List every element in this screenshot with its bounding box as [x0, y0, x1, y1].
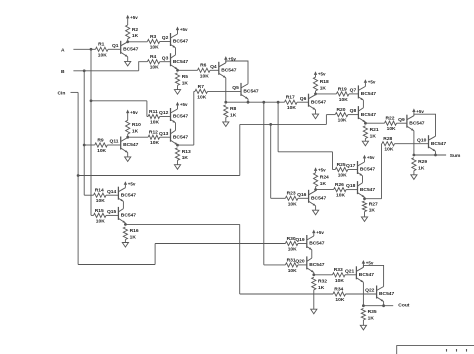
svg-text:10K: 10K — [288, 201, 297, 207]
svg-text:BC547: BC547 — [173, 59, 189, 65]
svg-text:+5v: +5v — [367, 155, 375, 160]
svg-text:+5v: +5v — [318, 168, 326, 173]
svg-text:Q22: Q22 — [365, 288, 375, 294]
svg-text:BC547: BC547 — [359, 272, 375, 278]
wire AND output to R34 — [240, 293, 333, 295]
resistor R7 10K — [195, 89, 208, 93]
svg-text:+5v: +5v — [180, 102, 188, 107]
wire Cin riser to R20 — [325, 115, 327, 125]
node Q9 emitter Sum rail — [413, 154, 416, 157]
svg-text:R1: R1 — [98, 42, 105, 48]
+5v supply — [176, 27, 179, 31]
wire Q20 emitter lead — [313, 272, 315, 274]
svg-text:Cin: Cin — [58, 90, 66, 96]
svg-text:1K: 1K — [369, 208, 376, 214]
node Q20 emitter — [312, 273, 315, 276]
ground — [225, 117, 227, 122]
transistor Q10 BC547 — [428, 135, 430, 148]
resistor R24 1K — [314, 173, 318, 187]
transistor Q13 BC547 — [170, 129, 172, 142]
svg-text:Q5: Q5 — [232, 85, 239, 91]
svg-text:10K: 10K — [384, 147, 393, 153]
resistor R19 10K — [336, 92, 349, 96]
svg-text:Q10: Q10 — [417, 137, 427, 143]
wire Cin upper feed — [240, 123, 327, 125]
wire Sum rail — [414, 154, 446, 156]
svg-text:10K: 10K — [150, 140, 159, 146]
svg-text:R5: R5 — [182, 74, 189, 80]
svg-text:R23: R23 — [287, 191, 296, 197]
svg-text:1K: 1K — [132, 33, 139, 39]
svg-text:10K: 10K — [338, 118, 347, 124]
svg-text:BC547: BC547 — [361, 112, 377, 118]
svg-text:1K: 1K — [132, 128, 139, 134]
wire Q19 emitter to Q20 collector — [311, 250, 313, 258]
svg-text:10K: 10K — [197, 94, 206, 100]
resistor R12 10K — [148, 135, 160, 139]
resistor R34 10K — [333, 292, 346, 296]
wire Cin bus vertical — [77, 92, 79, 264]
svg-text:A: A — [61, 47, 65, 53]
resistor R2 1K — [126, 25, 130, 39]
+5v supply — [364, 79, 367, 83]
svg-text:R15: R15 — [95, 208, 104, 214]
resistor R29 1K — [412, 158, 416, 171]
svg-text:R33: R33 — [334, 267, 343, 273]
transistor Q9 BC547 — [406, 115, 408, 128]
svg-text:R6: R6 — [200, 63, 207, 69]
wire A tap down to R11 — [146, 101, 148, 117]
svg-text:R11: R11 — [149, 109, 158, 115]
svg-text:R26: R26 — [335, 182, 344, 188]
svg-text:1K: 1K — [230, 112, 237, 118]
node A tap — [90, 99, 93, 102]
wire B input — [73, 70, 138, 72]
ground — [413, 171, 415, 175]
wire R12 to Q13 base — [160, 136, 171, 138]
node Q11 collector — [126, 136, 129, 139]
wire Q15 emitter lead — [124, 223, 126, 225]
node Q10 emitter — [434, 154, 437, 157]
wire R26 to Q18 base — [346, 189, 357, 191]
node B junction — [83, 69, 86, 72]
+5v supply — [314, 167, 317, 171]
wire down to R25 — [332, 152, 334, 170]
svg-text:BC547: BC547 — [123, 47, 139, 53]
svg-text:BC547: BC547 — [221, 68, 237, 74]
svg-text:BC547: BC547 — [243, 89, 259, 95]
svg-text:Q2: Q2 — [162, 35, 169, 41]
svg-text:BC547: BC547 — [173, 134, 189, 140]
+5v supply — [412, 108, 415, 112]
resistor R22 10K — [385, 121, 397, 125]
wire B bus vertical — [83, 71, 85, 195]
transistor Q16 BC547 — [308, 190, 310, 203]
svg-text:10K: 10K — [339, 97, 348, 103]
svg-text:Q9: Q9 — [398, 117, 405, 123]
wire riser to R20 — [326, 114, 335, 116]
ground — [315, 206, 317, 210]
+5v supply — [126, 110, 129, 114]
+5v supply — [126, 15, 129, 19]
svg-text:10K: 10K — [338, 173, 347, 179]
svg-text:+5v: +5v — [318, 72, 326, 77]
wire R3 to Q2 base — [160, 41, 171, 43]
svg-text:1K: 1K — [320, 85, 327, 91]
node Q16 collector — [314, 188, 317, 191]
node Q3 emitter — [176, 69, 179, 72]
wire R30 to Q19 base — [298, 243, 307, 245]
wire Q7 emitter to Q8 collector — [362, 100, 364, 108]
svg-text:R24: R24 — [320, 175, 329, 181]
svg-text:R16: R16 — [130, 228, 139, 234]
transistor Q22 BC547 — [376, 286, 378, 299]
wire Q4 emitter down — [225, 78, 227, 102]
wire Q1 collector to R3 — [128, 41, 148, 43]
wire R11 to Q12 base — [160, 116, 171, 118]
svg-text:R8: R8 — [230, 106, 237, 112]
title block border — [397, 346, 474, 354]
svg-text:BC547: BC547 — [121, 192, 137, 198]
+5v supply — [362, 260, 365, 264]
wire R10 to node — [127, 134, 129, 137]
wire AND output down — [239, 224, 241, 294]
svg-text:BC547: BC547 — [379, 291, 395, 297]
wire Q12 emitter to Q13 collector — [175, 123, 177, 131]
resistor R18 1K — [313, 77, 317, 91]
wire A bus vertical — [90, 49, 92, 215]
resistor R1 10K — [96, 47, 109, 51]
wire riser to R7 — [194, 90, 195, 92]
wire R14 to Q14 base — [106, 194, 118, 196]
wire R20 to Q8 base — [348, 114, 359, 116]
transistor Q19 BC547 — [306, 235, 308, 248]
transistor Q4 BC547 — [218, 62, 220, 75]
wire Q22 emitter down — [383, 302, 385, 306]
wire B to R4 — [139, 62, 148, 71]
svg-text:R19: R19 — [338, 86, 347, 92]
resistor R17 10K — [285, 100, 298, 104]
svg-text:Q16: Q16 — [297, 192, 307, 198]
node Q6 collector — [314, 93, 317, 96]
svg-text:BC547: BC547 — [360, 187, 376, 193]
wire R23 to Q16 base — [298, 197, 309, 199]
wire Q2 emitter to Q3 collector — [175, 48, 177, 55]
svg-text:R13: R13 — [182, 149, 191, 155]
svg-text:+5v: +5v — [180, 27, 188, 32]
ground — [124, 240, 126, 243]
wire Cin long feed — [78, 175, 240, 177]
transistor Q2 BC547 — [170, 33, 172, 46]
transistor Q5 BC547 — [240, 83, 242, 96]
wire +5v to Q22 collector — [363, 265, 383, 286]
svg-text:+5v: +5v — [130, 110, 138, 115]
node Q15 emitter — [124, 223, 127, 226]
svg-text:1K: 1K — [318, 285, 325, 291]
svg-text:Q11: Q11 — [110, 139, 119, 145]
transistor Q14 BC547 — [117, 187, 119, 200]
svg-text:10K: 10K — [287, 105, 296, 111]
svg-text:R34: R34 — [334, 286, 343, 292]
wire Q18 node to riser — [365, 198, 382, 200]
svg-text:BC547: BC547 — [360, 167, 376, 173]
wire R7 to Q5 base — [208, 90, 242, 92]
svg-text:R2: R2 — [132, 27, 139, 33]
wire tap1 to R31 — [264, 264, 286, 266]
node Q21 emitter Cout rail — [362, 304, 365, 307]
svg-text:BC547: BC547 — [173, 114, 189, 120]
svg-text:10K: 10K — [150, 45, 159, 51]
ground — [313, 290, 315, 309]
resistor R13 1K — [175, 148, 179, 161]
svg-text:+5v: +5v — [368, 80, 376, 85]
wire A tap across — [91, 100, 147, 102]
svg-text:1K: 1K — [368, 315, 375, 321]
node Q4 emitter rail — [224, 101, 227, 104]
wire R4 to Q3 base — [160, 61, 171, 63]
resistor R23 10K — [285, 196, 298, 200]
wire A bus to R15 — [91, 214, 94, 216]
wire Q21 emitter down — [362, 282, 364, 305]
wire R24 to node — [315, 187, 317, 190]
svg-text:Q1: Q1 — [112, 43, 119, 49]
svg-text:Q6: Q6 — [300, 96, 307, 102]
svg-text:10K: 10K — [288, 247, 297, 253]
resistor R14 10K — [94, 193, 107, 197]
svg-text:R29: R29 — [418, 159, 427, 165]
svg-text:1K: 1K — [130, 234, 137, 240]
wire Cin bottom riser — [154, 244, 156, 265]
resistor R30 10K — [285, 241, 298, 245]
wire Cin input — [71, 91, 79, 93]
wire A input — [73, 48, 95, 50]
svg-text:10K: 10K — [387, 126, 396, 132]
wire +5v to Q10 collector — [414, 114, 436, 136]
wire Cin riser — [239, 124, 241, 175]
svg-text:Q14: Q14 — [107, 189, 117, 195]
svg-text:10K: 10K — [200, 73, 209, 79]
wire corner to R11 — [147, 116, 148, 118]
resistor R21 1K — [363, 126, 367, 139]
svg-text:Q7: Q7 — [350, 88, 357, 94]
svg-text:1K: 1K — [370, 133, 377, 139]
node Q18 emitter — [363, 197, 366, 200]
+5v supply — [312, 230, 315, 234]
svg-text:+5v: +5v — [128, 182, 136, 187]
svg-text:Q12: Q12 — [159, 110, 169, 116]
wire Q11 collector to R12 — [128, 136, 148, 138]
svg-text:+5v: +5v — [366, 260, 374, 265]
svg-text:BC547: BC547 — [311, 196, 327, 202]
svg-text:10K: 10K — [97, 148, 106, 154]
ground — [127, 153, 129, 157]
+5v supply — [314, 71, 317, 75]
svg-text:R3: R3 — [150, 34, 157, 40]
transistor Q20 BC547 — [306, 256, 308, 269]
wire Q17 emitter to Q18 collector — [362, 176, 364, 183]
svg-text:10K: 10K — [150, 120, 159, 126]
svg-text:R28: R28 — [383, 136, 392, 142]
wire Q10 emitter down — [435, 151, 437, 155]
svg-text:BC547: BC547 — [311, 99, 327, 105]
svg-text:R21: R21 — [370, 127, 379, 133]
ground — [315, 110, 317, 114]
svg-text:R4: R4 — [150, 54, 157, 60]
transistor Q7 BC547 — [357, 85, 359, 98]
svg-text:10K: 10K — [96, 218, 105, 224]
wire AND output across — [125, 223, 239, 225]
+5v supply — [363, 155, 366, 159]
+5v supply — [124, 181, 127, 185]
svg-text:+5v: +5v — [416, 109, 424, 114]
svg-text:10K: 10K — [150, 65, 159, 71]
transistor Q11 BC547 — [120, 137, 122, 150]
resistor R8 1K — [224, 105, 228, 118]
wire corner to R23 — [271, 197, 286, 199]
ground — [364, 139, 366, 142]
svg-text:BC547: BC547 — [121, 213, 137, 219]
svg-text:Q8: Q8 — [350, 108, 357, 114]
wire +5v to Q5 collector — [226, 61, 248, 84]
transistor Q15 BC547 — [117, 207, 119, 220]
resistor R4 10K — [147, 60, 159, 64]
svg-text:Sum: Sum — [450, 153, 461, 159]
ground — [364, 212, 366, 217]
wire R7 riser — [193, 91, 195, 145]
resistor R35 1K — [361, 308, 365, 320]
node Q1 collector — [126, 40, 129, 43]
svg-text:10K: 10K — [98, 52, 107, 58]
svg-text:Q20: Q20 — [295, 259, 305, 265]
svg-text:Q4: Q4 — [210, 64, 217, 70]
wire riser to R28 — [381, 143, 384, 145]
ground — [177, 160, 179, 164]
svg-text:R14: R14 — [95, 188, 104, 194]
wire R18 to node — [315, 91, 317, 94]
resistor R11 10K — [148, 114, 160, 118]
svg-text:10K: 10K — [336, 193, 345, 199]
wire R33 to Q21 base — [345, 274, 356, 276]
wire node to R6 — [178, 69, 198, 71]
wire tap2 across — [278, 151, 332, 153]
resistor R31 10K — [285, 263, 298, 267]
+5v supply — [224, 56, 227, 60]
svg-text:1K: 1K — [418, 165, 425, 171]
wire R15 to Q15 base — [106, 214, 118, 216]
svg-text:Q13: Q13 — [159, 131, 169, 137]
wire Q8 emitter lead — [364, 122, 366, 123]
transistor Q21 BC547 — [355, 266, 357, 279]
resistor R27 1K — [362, 201, 366, 212]
resistor R5 1K — [175, 73, 179, 86]
resistor R3 10K — [147, 39, 159, 43]
svg-text:R10: R10 — [132, 122, 141, 128]
svg-text:1K: 1K — [182, 80, 189, 86]
svg-text:BC547: BC547 — [409, 120, 425, 126]
ground — [177, 85, 179, 89]
resistor R33 10K — [333, 273, 346, 277]
svg-text:Q21: Q21 — [345, 268, 355, 274]
wire Q8 node to R22 — [365, 122, 384, 124]
ground — [362, 320, 364, 325]
wire R2 to node — [127, 39, 129, 42]
transistor Q6 BC547 — [308, 94, 310, 107]
svg-text:BC547: BC547 — [431, 141, 447, 147]
svg-text:BC547: BC547 — [123, 142, 139, 148]
node A junction — [90, 48, 93, 51]
svg-text:10K: 10K — [288, 268, 297, 274]
svg-text:BC547: BC547 — [173, 39, 189, 45]
wire Q14 emitter to Q15 collector — [122, 201, 124, 208]
wire R1 to Q1 base — [108, 48, 121, 50]
svg-text:Q19: Q19 — [295, 237, 305, 243]
svg-text:10K: 10K — [96, 198, 105, 204]
wire Q13 node to R7 riser — [178, 144, 194, 146]
wire R31 to Q20 base — [298, 264, 307, 266]
transistor Q12 BC547 — [170, 108, 172, 121]
svg-text:R27: R27 — [369, 201, 378, 207]
svg-text:Q17: Q17 — [346, 163, 356, 169]
svg-text:R17: R17 — [286, 95, 295, 101]
wire R25 to Q17 base — [348, 169, 358, 171]
resistor R25 10K — [335, 167, 348, 171]
svg-text:R20: R20 — [337, 107, 346, 113]
resistor R28 10K — [382, 142, 395, 146]
resistor R10 1K — [126, 120, 130, 134]
wire Q6 collector to R19 — [316, 93, 337, 95]
resistor R32 1K — [312, 277, 316, 290]
wire Q16 collector to R26 — [316, 189, 334, 191]
node Q22 emitter — [382, 304, 385, 307]
wire Cin bottom across — [78, 264, 155, 266]
svg-text:1K: 1K — [182, 155, 189, 161]
wire Cout rail — [363, 305, 393, 307]
wire R34 to Q22 base — [346, 293, 377, 295]
svg-text:1K: 1K — [320, 181, 327, 187]
wire Q3 emitter lead — [177, 69, 179, 70]
ground — [127, 57, 129, 62]
node rail tap 1 — [262, 101, 265, 104]
svg-text:Q15: Q15 — [107, 209, 117, 215]
transistor Q18 BC547 — [357, 181, 359, 194]
svg-text:Q3: Q3 — [162, 55, 169, 61]
node rail tap 2 — [277, 101, 280, 104]
wire R19 to Q7 base — [349, 93, 358, 95]
svg-text:+5v: +5v — [316, 230, 324, 235]
transistor Q1 BC547 — [120, 41, 122, 54]
node Q5 emitter — [247, 101, 250, 104]
svg-text:R12: R12 — [149, 130, 158, 136]
node Cin feed tap — [269, 123, 272, 126]
resistor R26 10K — [334, 188, 347, 192]
transistor Q8 BC547 — [357, 106, 359, 119]
wire Q5 emitter down — [247, 99, 249, 102]
resistor R15 10K — [94, 213, 107, 217]
wire R17 to Q6 base — [297, 101, 309, 103]
wire R9 to Q11 base — [107, 144, 120, 146]
resistor R6 10K — [198, 68, 211, 72]
node Q13 emitter — [176, 144, 179, 147]
resistor R16 1K — [123, 227, 127, 240]
svg-text:R35: R35 — [368, 309, 377, 315]
svg-text:BC547: BC547 — [361, 91, 377, 97]
wire Q9 emitter down — [413, 131, 415, 155]
transistor Q3 BC547 — [170, 53, 172, 66]
svg-text:R9: R9 — [97, 137, 104, 143]
wire Q18 node riser to R28 — [381, 144, 383, 199]
svg-text:BC547: BC547 — [309, 262, 325, 268]
wire Cin to R30 — [155, 243, 285, 245]
